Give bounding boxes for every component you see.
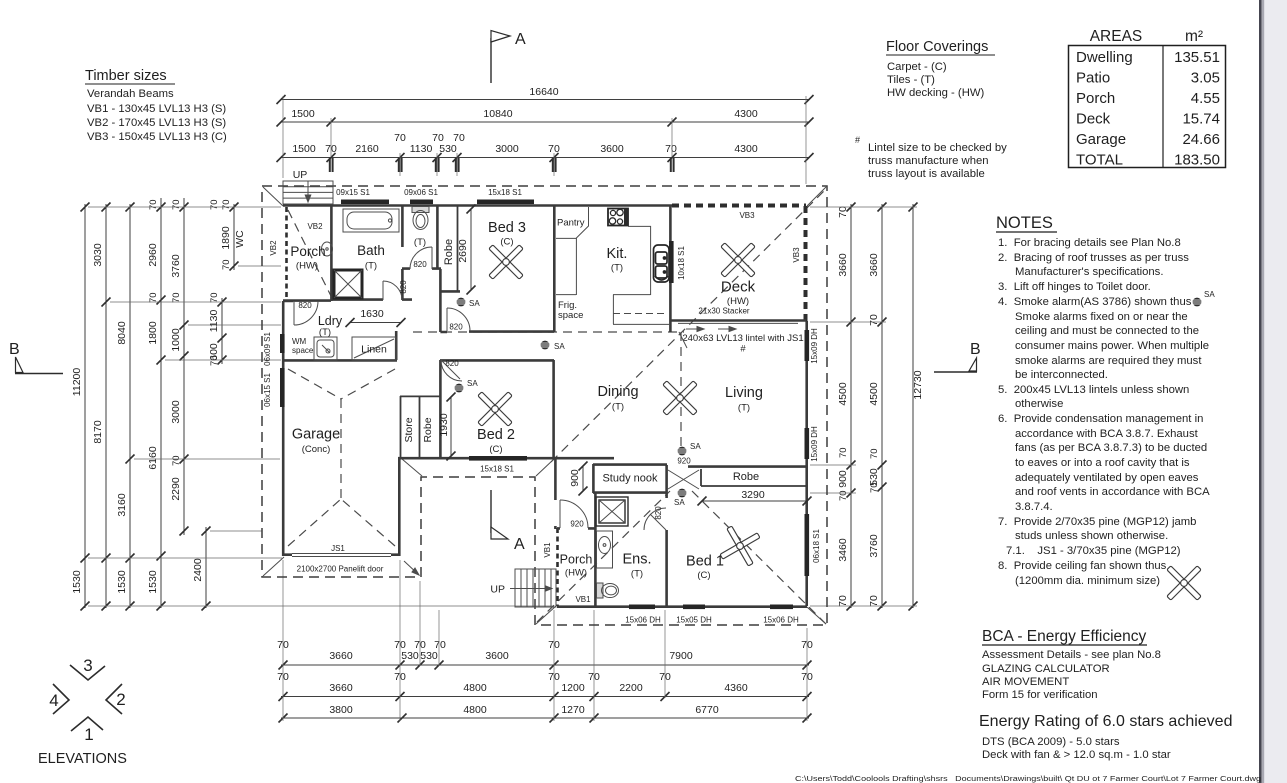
lintel hash note (855, 135, 1007, 180)
svg-text:3030: 3030 (92, 243, 104, 267)
ceiling fan bed1 rotated (703, 509, 777, 583)
svg-text:(1200mm dia. minimum size): (1200mm dia. minimum size) (1015, 575, 1160, 587)
stairs bottom UP (510, 569, 556, 607)
svg-text:900: 900 (569, 469, 581, 487)
svg-text:adequately ventilated by open: adequately ventilated by open eaves (1015, 472, 1199, 484)
robe bed3 divider line (457, 205, 459, 291)
linen cupboard (352, 337, 396, 360)
svg-text:900: 900 (837, 470, 849, 488)
svg-text:(T): (T) (611, 263, 623, 274)
eave corner mitre top-left (263, 187, 283, 206)
svg-text:1: 1 (84, 725, 93, 744)
svg-text:820: 820 (445, 359, 459, 368)
svg-text:4: 4 (49, 691, 58, 710)
section marker B left (9, 341, 63, 374)
svg-text:8170: 8170 (92, 420, 104, 444)
svg-text:4500: 4500 (837, 382, 849, 406)
eave corner mitre courtyard east (536, 459, 554, 476)
left exterior wall ldry+garage (282, 301, 285, 556)
svg-text:be interconnected.: be interconnected. (1015, 369, 1108, 381)
right exterior wall living/bed1 (805, 321, 808, 606)
svg-text:Robe: Robe (443, 239, 455, 265)
door arc bed3 (447, 308, 470, 331)
eave corner mitre top-right (807, 187, 826, 206)
svg-text:HW decking - (HW): HW decking - (HW) (887, 87, 985, 99)
svg-text:70: 70 (838, 490, 849, 501)
left dimension column 3 (8040/3160/1530) (116, 203, 135, 611)
svg-text:5. 200x45 LVL13 lintels unles: 5. 200x45 LVL13 lintels unless shown (998, 384, 1189, 396)
bed2 top wall (462, 360, 554, 459)
svg-text:Dwelling: Dwelling (1076, 49, 1133, 66)
svg-text:7900: 7900 (669, 650, 693, 662)
hall wall below wc/robe (439, 269, 442, 332)
svg-text:B: B (970, 341, 981, 358)
top extension lines (283, 96, 806, 184)
svg-text:(Conc): (Conc) (302, 444, 331, 455)
svg-text:Timber sizes: Timber sizes (85, 68, 167, 84)
kitchen stove (608, 209, 628, 226)
svg-text:15x05 DH: 15x05 DH (676, 616, 712, 625)
svg-text:1000: 1000 (170, 328, 182, 352)
svg-text:Study nook: Study nook (602, 473, 658, 485)
left dimension column 1 (11200/1530) (71, 203, 90, 611)
svg-text:09x15 S1: 09x15 S1 (336, 188, 370, 197)
ldry trough (314, 337, 337, 360)
svg-text:3: 3 (83, 656, 92, 675)
svg-text:2200: 2200 (619, 682, 643, 694)
window 15x06 DH bottom 1 (629, 605, 655, 610)
svg-text:4300: 4300 (734, 143, 758, 155)
smoke alarm dining (541, 341, 566, 351)
svg-text:70: 70 (869, 482, 880, 493)
svg-text:15.74: 15.74 (1182, 111, 1220, 128)
svg-text:21x30 Stacker: 21x30 Stacker (698, 307, 749, 316)
svg-text:70: 70 (665, 143, 677, 155)
window 09x15 S1 top (341, 200, 389, 205)
svg-text:SA: SA (674, 498, 685, 507)
garage bottom wall + panelift door (283, 553, 400, 556)
ens/bed1 divider wall (665, 465, 668, 606)
wall dining bottom / bed2 top (440, 360, 462, 459)
svg-text:15x06 DH: 15x06 DH (625, 616, 661, 625)
bottom dimension row 3 (279, 704, 812, 723)
svg-text:smoke alarms are required they: smoke alarms are required they must (1015, 355, 1202, 367)
svg-text:VB1: VB1 (575, 595, 591, 604)
svg-text:and roof vents in accordance w: and roof vents in accordance with BCA (1015, 486, 1210, 498)
svg-text:Kit.: Kit. (607, 246, 628, 262)
bath basin (322, 242, 333, 256)
stairs top UP (283, 181, 333, 204)
svg-text:Assessment Details - see plan: Assessment Details - see plan No.8 (982, 649, 1161, 661)
svg-text:Pantry: Pantry (557, 218, 585, 229)
bottom exterior wall bed1/ens/porch (557, 605, 807, 608)
wall ldry top / porch bottom (283, 299, 331, 302)
svg-text:70: 70 (148, 199, 159, 210)
door arc ldry (294, 301, 318, 325)
west wall hall bottom band (554, 458, 557, 529)
svg-text:WM: WM (292, 337, 307, 346)
smoke alarm bed2 (455, 379, 479, 392)
svg-text:7.1. JS1 - 3/70x35 pine (MG: 7.1. JS1 - 3/70x35 pine (MGP12) (1006, 545, 1181, 557)
svg-text:truss layout is available: truss layout is available (868, 168, 985, 180)
svg-text:15x09 DH: 15x09 DH (810, 328, 819, 364)
svg-text:4360: 4360 (724, 682, 748, 694)
window 15x18 S1 top (bed3) (477, 200, 534, 205)
svg-text:UP: UP (293, 169, 308, 181)
svg-text:Dining: Dining (597, 384, 638, 400)
svg-text:1800: 1800 (147, 321, 159, 345)
section marker A bottom (491, 490, 525, 553)
svg-text:6770: 6770 (695, 704, 719, 716)
svg-text:to eaves or into a roof cavity: to eaves or into a roof cavity that is (1015, 457, 1190, 469)
svg-text:70: 70 (837, 206, 849, 218)
bed3/kit divider wall (553, 205, 556, 332)
svg-text:2: 2 (116, 690, 125, 709)
svg-text:1. For bracing details see Pl: 1. For bracing details see Plan No.8 (998, 237, 1181, 249)
svg-text:11200: 11200 (71, 368, 83, 397)
svg-text:530: 530 (420, 650, 438, 662)
svg-text:AIR MOVEMENT: AIR MOVEMENT (982, 676, 1069, 688)
kitchen fridge symbol (654, 245, 670, 282)
window 15x05 DH bottom 2 (683, 605, 705, 610)
svg-text:8040: 8040 (116, 321, 128, 345)
dim 900 nook (569, 462, 588, 496)
svg-text:Deck: Deck (721, 279, 756, 296)
svg-text:m²: m² (1185, 28, 1203, 45)
kitchen pantry corner (556, 207, 589, 238)
kitchen fridge column (556, 238, 576, 295)
garage roof ridge dashed (340, 399, 342, 499)
svg-text:4300: 4300 (734, 108, 758, 120)
svg-text:10840: 10840 (483, 108, 512, 120)
svg-text:(T): (T) (414, 237, 426, 248)
window 15x18 S1 bed2 bottom (469, 456, 527, 461)
section marker A top (491, 31, 526, 84)
smoke alarm symbol in note 4 (1193, 290, 1216, 306)
svg-text:3000: 3000 (495, 143, 519, 155)
window 06x15 S1 left (garage) (280, 368, 285, 407)
svg-text:70: 70 (869, 448, 880, 459)
title Floor Coverings (886, 39, 995, 99)
svg-text:70: 70 (148, 292, 159, 303)
svg-text:09x06 S1: 09x06 S1 (404, 188, 438, 197)
svg-text:4800: 4800 (463, 704, 487, 716)
svg-text:UP: UP (490, 584, 505, 596)
outer dashed eaves boundary (262, 186, 827, 625)
svg-text:Verandah Beams: Verandah Beams (87, 88, 174, 100)
svg-text:2960: 2960 (147, 243, 159, 267)
top dimension row 2 (1500 10840 4300) (277, 108, 814, 127)
svg-text:24.66: 24.66 (1182, 131, 1220, 148)
svg-text:15x09 DH: 15x09 DH (810, 426, 819, 462)
window 09x06 S1 top (410, 200, 433, 205)
bottom extension lines (283, 560, 807, 721)
bed1 robe bottom shelf (701, 469, 806, 486)
svg-text:Garage: Garage (292, 427, 340, 443)
svg-text:1270: 1270 (561, 704, 585, 716)
svg-text:SA: SA (1204, 290, 1215, 299)
svg-text:3800: 3800 (329, 704, 353, 716)
svg-text:70: 70 (209, 292, 220, 303)
dim 1630 ldry (346, 308, 406, 327)
robe bed3 bottom wall (440, 290, 460, 293)
svg-text:3160: 3160 (116, 493, 128, 517)
ens vanity (597, 531, 613, 568)
svg-text:70: 70 (209, 199, 220, 210)
roof valley dashed diagonal dining-deck (551, 189, 826, 462)
dim 3290 (698, 489, 812, 506)
svg-text:SA: SA (467, 379, 478, 388)
bottom dimension row 1 (277, 639, 813, 670)
svg-text:1130: 1130 (208, 310, 220, 333)
svg-text:70: 70 (868, 595, 880, 607)
svg-text:otherwise: otherwise (1015, 398, 1063, 410)
left dimension column 2 (3030/8170) (92, 203, 111, 611)
svg-text:530: 530 (401, 650, 419, 662)
kitchen bench right (628, 226, 651, 295)
svg-text:Store: Store (403, 417, 415, 442)
svg-text:Deck: Deck (1076, 111, 1111, 128)
svg-text:3660: 3660 (329, 682, 353, 694)
svg-text:ceiling and must be connected: ceiling and must be connected to the (1015, 325, 1199, 337)
svg-text:3460: 3460 (837, 538, 849, 562)
svg-text:70: 70 (171, 199, 182, 210)
svg-text:06x09 S1: 06x09 S1 (263, 332, 272, 366)
ens toilet (597, 583, 619, 598)
svg-text:Bath: Bath (357, 243, 385, 258)
svg-text:2400: 2400 (192, 558, 204, 582)
svg-text:1930: 1930 (438, 413, 450, 437)
bed3 left lower wall w/ door opening (440, 330, 554, 333)
svg-text:15x18 S1: 15x18 S1 (488, 188, 522, 197)
wc right wall / robe left (436, 205, 439, 269)
svg-text:1200: 1200 (561, 682, 585, 694)
door arc bed2 (441, 360, 462, 381)
svg-text:10x18 S1: 10x18 S1 (677, 246, 686, 280)
svg-text:(T): (T) (612, 402, 624, 413)
window 10x18 S1 deck/kit wall (669, 241, 674, 283)
left dimension column 7 (1130/600) (208, 199, 227, 366)
garage roof hip dashes (288, 369, 341, 399)
svg-text:183.50: 183.50 (1174, 152, 1220, 169)
svg-text:Robe: Robe (733, 471, 759, 483)
svg-text:#: # (740, 344, 746, 355)
svg-text:06x18 S1: 06x18 S1 (812, 529, 821, 563)
bottom dimension row 2 (277, 671, 813, 701)
svg-text:920: 920 (677, 457, 691, 466)
svg-text:ELEVATIONS: ELEVATIONS (38, 751, 127, 767)
eave corner mitre porch bottom (536, 606, 556, 624)
svg-text:Bed 3: Bed 3 (488, 220, 526, 236)
store/robe dividers (400, 396, 440, 458)
title Timber sizes (85, 68, 227, 143)
svg-text:studs unless shown otherwise.: studs unless shown otherwise. (1015, 530, 1168, 542)
svg-text:3.8.7.4.: 3.8.7.4. (1015, 501, 1053, 513)
svg-text:135.51: 135.51 (1174, 49, 1220, 66)
svg-text:3660: 3660 (837, 253, 849, 277)
svg-text:Ens.: Ens. (622, 552, 651, 568)
right extension lines (810, 207, 917, 606)
kitchen bench bottom (613, 295, 670, 325)
eave corner mitre courtyard south with arrow (404, 561, 419, 575)
svg-text:2290: 2290 (170, 477, 182, 501)
svg-text:AREAS: AREAS (1090, 28, 1143, 45)
bath shower (334, 270, 362, 298)
svg-text:space: space (558, 310, 583, 321)
ceiling fan living (650, 368, 711, 429)
eave corner mitre bottom-right (807, 607, 826, 624)
svg-text:Porch: Porch (1076, 90, 1115, 107)
left dimension column 5 (3760/1000/3000/2290) (170, 198, 189, 536)
svg-text:2690: 2690 (457, 239, 469, 263)
svg-text:820: 820 (654, 506, 663, 520)
svg-text:VB1: VB1 (543, 542, 552, 558)
svg-text:Bed 2: Bed 2 (477, 427, 515, 443)
right dimension column 3 (12730) (909, 203, 925, 611)
left dimension column 6 (2400) (192, 527, 211, 611)
svg-text:WC: WC (234, 230, 246, 248)
smoke alarm hall bed3 (457, 298, 481, 308)
svg-text:Tiles - (T): Tiles - (T) (887, 74, 935, 86)
svg-text:VB2 - 170x45 LVL13 H3 (S): VB2 - 170x45 LVL13 H3 (S) (87, 117, 226, 129)
svg-text:B: B (9, 341, 20, 358)
svg-text:3660: 3660 (868, 253, 880, 277)
svg-text:VB3: VB3 (739, 211, 755, 220)
ldry bottom wall (283, 359, 397, 362)
svg-text:Ldry: Ldry (318, 314, 343, 328)
svg-text:Manufacturer's specifications.: Manufacturer's specifications. (1015, 266, 1163, 278)
svg-text:(T): (T) (319, 327, 331, 338)
door arc porch hall (560, 500, 588, 528)
svg-text:(C): (C) (697, 570, 710, 581)
svg-text:SA: SA (554, 342, 565, 351)
svg-text:BCA - Energy Efficiency: BCA - Energy Efficiency (982, 628, 1147, 645)
svg-text:Linen: Linen (361, 344, 387, 356)
svg-text:6. Provide condensation manag: 6. Provide condensation management in (998, 413, 1203, 425)
right dimension column 1 (837, 203, 856, 611)
svg-text:15x18 S1: 15x18 S1 (480, 465, 514, 474)
window 06x09 S1 left (ldry) (280, 334, 285, 353)
svg-text:Porch: Porch (290, 244, 325, 259)
svg-text:2160: 2160 (355, 143, 379, 155)
svg-text:4500: 4500 (868, 382, 880, 406)
svg-text:Living: Living (725, 385, 763, 401)
smoke alarm hall bed1 (674, 489, 686, 507)
eave corner mitre garage bottom-left (263, 557, 284, 576)
svg-text:Energy Rating of 6.0 stars ach: Energy Rating of 6.0 stars achieved (979, 713, 1232, 730)
svg-text:3660: 3660 (329, 650, 353, 662)
svg-text:JS1: JS1 (331, 544, 345, 553)
svg-text:(HW): (HW) (565, 568, 587, 579)
svg-text:GLAZING CALCULATOR: GLAZING CALCULATOR (982, 663, 1110, 675)
svg-text:Bed 1: Bed 1 (686, 554, 724, 570)
door X bed1 entry (668, 470, 699, 489)
door arc bath (383, 281, 402, 300)
svg-text:6160: 6160 (147, 446, 159, 470)
wc toilet (412, 207, 429, 230)
svg-text:70: 70 (171, 292, 182, 303)
svg-text:1530: 1530 (116, 570, 128, 594)
svg-text:SA: SA (469, 299, 480, 308)
svg-text:3.05: 3.05 (1191, 70, 1220, 87)
kitchen overhead cupboard dashed (613, 313, 668, 315)
svg-text:3760: 3760 (170, 254, 182, 278)
svg-text:1630: 1630 (360, 308, 384, 320)
svg-text:(HW): (HW) (727, 296, 749, 307)
svg-text:(T): (T) (738, 403, 750, 414)
porch bottom top wall w/ door (557, 527, 596, 530)
svg-text:(HW): (HW) (296, 261, 318, 272)
svg-text:820: 820 (413, 260, 427, 269)
roof ridge dashed horizontal (413, 331, 684, 333)
svg-text:A: A (514, 536, 525, 553)
svg-text:820: 820 (399, 280, 408, 294)
svg-text:space: space (292, 346, 314, 355)
wall section double bars under top dims (330, 158, 674, 172)
svg-text:06x15 S1: 06x15 S1 (263, 373, 272, 407)
svg-text:3600: 3600 (600, 143, 624, 155)
svg-text:3600: 3600 (485, 650, 509, 662)
svg-text:consumer mains power. When mu: consumer mains power. When multiple (1015, 340, 1209, 352)
svg-text:3290: 3290 (741, 489, 765, 501)
study nook bottom wall (593, 491, 667, 494)
bath right wall / wc left (401, 205, 404, 300)
roof ridge dashed vertical (680, 332, 682, 449)
svg-text:(C): (C) (500, 237, 513, 248)
window 15x09 DH right mid (805, 428, 810, 459)
smoke alarm living robe (678, 442, 702, 455)
svg-text:70: 70 (221, 199, 232, 210)
NOTES block (996, 214, 1210, 587)
roof valley dashed diagonal bed1 (692, 491, 826, 624)
wire wall: top exterior wall (283, 204, 672, 207)
svg-text:(C): (C) (489, 444, 502, 455)
svg-text:820: 820 (449, 323, 463, 332)
svg-text:1500: 1500 (291, 108, 315, 120)
bed1 robe top wall (688, 465, 806, 468)
dim 1930 (438, 393, 456, 461)
kit/deck divider wall (669, 205, 672, 332)
svg-text:15x06 DH: 15x06 DH (763, 616, 799, 625)
svg-text:VB1 - 130x45 LVL13 H3 (S): VB1 - 130x45 LVL13 H3 (S) (87, 103, 226, 115)
svg-text:Deck with fan & > 12.0 sq.m -: Deck with fan & > 12.0 sq.m - 1.0 star (982, 749, 1171, 761)
ens shower (596, 497, 628, 526)
study nook top wall (593, 464, 667, 493)
ceiling fan bed2 (465, 379, 526, 440)
svg-text:7. Provide 2/70x35 pine (MGP1: 7. Provide 2/70x35 pine (MGP12) jamb (998, 516, 1196, 528)
svg-text:2. Bracing of roof trusses as: 2. Bracing of roof trusses as per truss (998, 252, 1189, 264)
deck bottom wall stacker (670, 319, 806, 322)
wc bottom wall with door opening (402, 267, 441, 270)
dim 2690 robe (457, 205, 476, 295)
svg-text:Porch: Porch (560, 553, 593, 567)
svg-text:12730: 12730 (912, 370, 924, 399)
svg-text:VB3: VB3 (792, 247, 801, 263)
svg-text:4. Smoke alarm(AS 3786) shown: 4. Smoke alarm(AS 3786) shown thus (998, 296, 1192, 308)
svg-text:Carpet - (C): Carpet - (C) (887, 61, 947, 73)
svg-text:70: 70 (221, 259, 232, 270)
svg-text:8. Provide ceiling fan shown: 8. Provide ceiling fan shown thus (998, 560, 1167, 572)
svg-text:fans (as per BCA 3.8.7.3) to b: fans (as per BCA 3.8.7.3) to be ducted (1015, 442, 1207, 454)
svg-text:(T): (T) (365, 261, 377, 272)
svg-text:TOTAL: TOTAL (1076, 152, 1123, 169)
wall bed2 bottom / store bottom (398, 457, 614, 460)
svg-text:Form 15 for verification: Form 15 for verification (982, 689, 1098, 701)
svg-text:70: 70 (209, 355, 220, 366)
scanned page right edge band (1262, 0, 1287, 783)
deck right edge dashed thick (804, 206, 808, 321)
deck top edge dashed thick (672, 204, 806, 208)
